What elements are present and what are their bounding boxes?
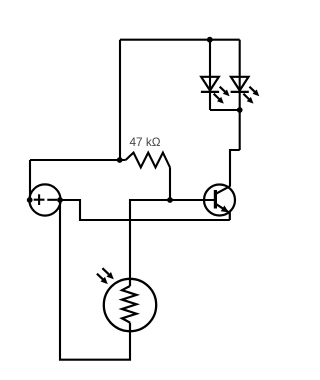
node junction top rail / LED D1 anode	[207, 37, 213, 43]
wire LED cathode connector	[210, 109, 240, 111]
node junction LED connector / collector wire	[237, 107, 243, 113]
svg-text:47 kΩ: 47 kΩ	[129, 135, 160, 149]
wire left riser from top rail down to resistor row	[119, 40, 121, 160]
node battery right terminal	[57, 197, 63, 203]
transistor Q1 NPN	[204, 185, 235, 221]
battery B1 (circular source, + left)	[29, 184, 60, 215]
wire base node left jog down to photoresistor	[130, 200, 170, 280]
wire top rail V+	[120, 39, 240, 41]
wire resistor right riser down to base node	[169, 167, 171, 200]
LED D2	[231, 77, 260, 104]
wire jog from LEDs down to collector	[230, 150, 240, 187]
wire battery plus row to resistor	[30, 159, 126, 161]
node base junction dot	[167, 197, 173, 203]
wire LED D2 branch	[239, 40, 241, 150]
wire battery right terminal down, bottom rail, up to LDR	[60, 200, 130, 360]
node battery left terminal	[27, 197, 33, 203]
wire battery right terminal to emitter rail	[60, 200, 230, 220]
wire battery left terminal riser	[29, 160, 31, 200]
wire LED D1 branch	[209, 40, 211, 110]
node junction riser / resistor left	[117, 157, 123, 163]
resistor R1 47 kOhm zigzag	[126, 153, 170, 168]
photoresistor LDR	[97, 268, 156, 331]
LED D1	[201, 77, 230, 104]
wire base node to transistor base	[170, 199, 214, 201]
